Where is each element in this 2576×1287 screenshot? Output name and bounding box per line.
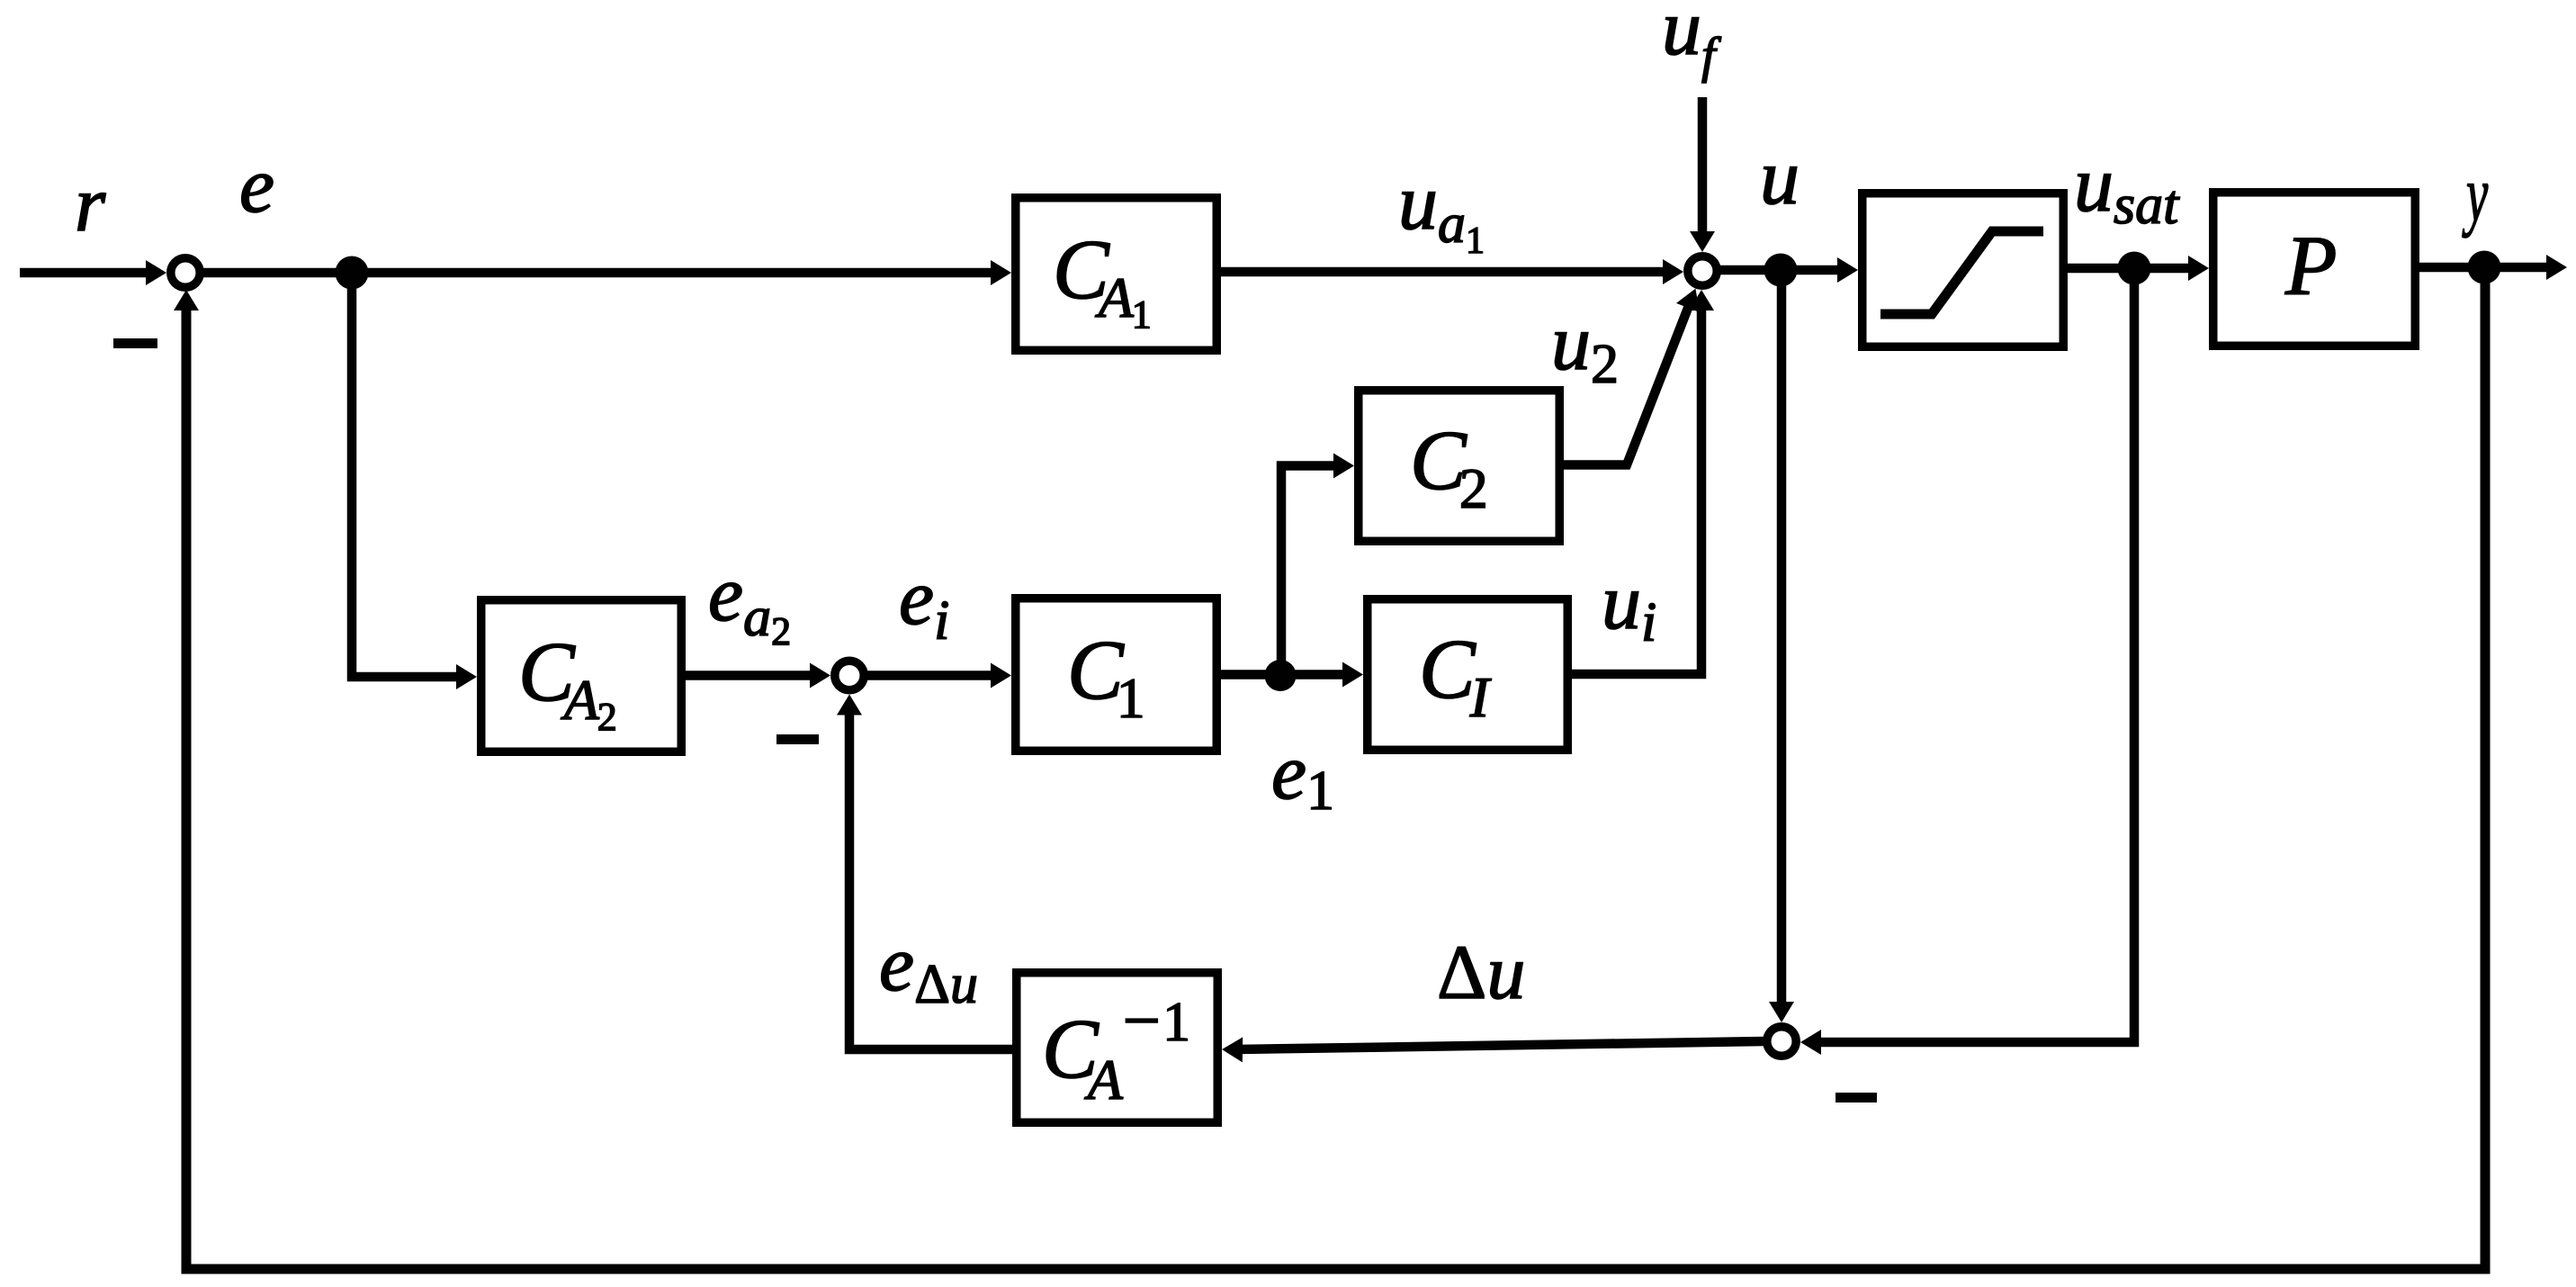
svg-text:r: r [75,161,106,248]
svg-text:Δu: Δu [1437,929,1525,1015]
svg-text:e: e [239,142,274,229]
svg-text:P: P [2284,220,2337,313]
svg-text:u: u [1760,134,1800,221]
